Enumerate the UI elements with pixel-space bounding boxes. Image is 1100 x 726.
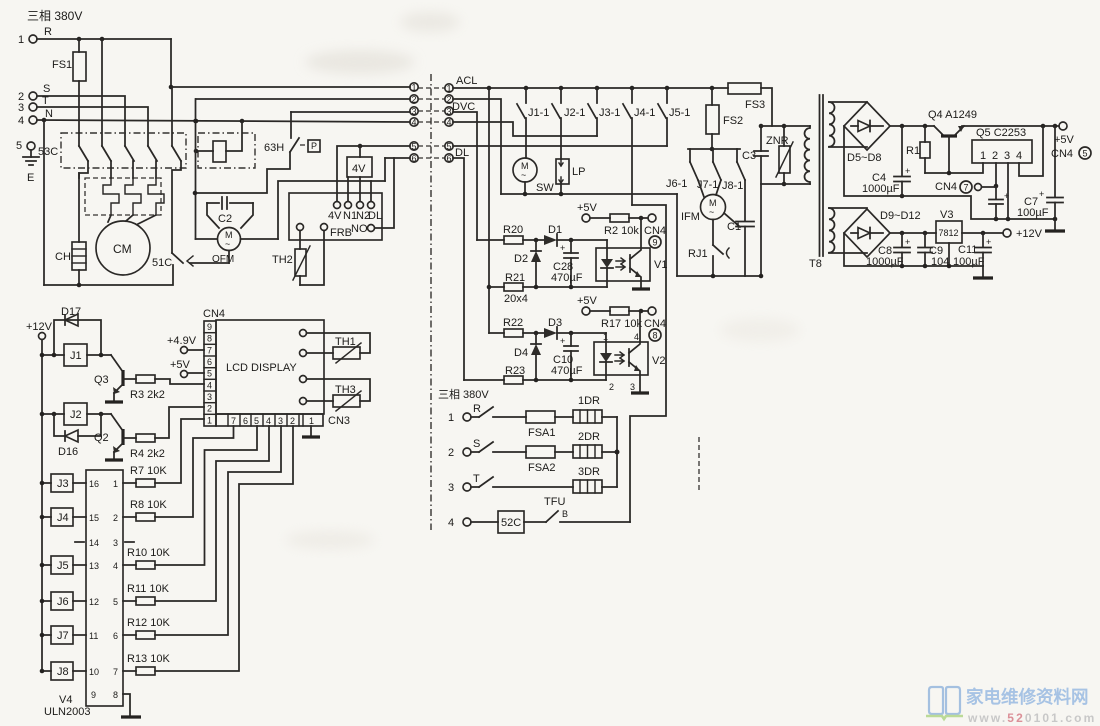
capacitor C11 100uF bbox=[953, 233, 991, 268]
node column right: pin 3 DVC bbox=[445, 101, 475, 117]
motor SW (swing) bbox=[513, 158, 554, 194]
capacitor C9 104 bbox=[918, 233, 949, 268]
svg-text:R13 10K: R13 10K bbox=[127, 653, 170, 665]
svg-text:Q5 C2253: Q5 C2253 bbox=[976, 127, 1026, 139]
connector CN3 (strip) bbox=[216, 414, 350, 427]
svg-text:470µF: 470µF bbox=[551, 272, 583, 284]
ground (Q2) bbox=[105, 458, 123, 461]
diode D2 bbox=[514, 240, 541, 287]
svg-text:6: 6 bbox=[207, 357, 212, 367]
svg-text:B: B bbox=[562, 509, 568, 519]
svg-text:13: 13 bbox=[89, 561, 99, 571]
svg-text:+: + bbox=[560, 336, 565, 346]
node column left: pin 1 bbox=[410, 83, 445, 93]
svg-text:2: 2 bbox=[113, 513, 118, 523]
svg-text:6: 6 bbox=[412, 154, 417, 164]
resistor R8 10K bbox=[123, 426, 234, 521]
svg-text:RJ1: RJ1 bbox=[688, 248, 708, 260]
wire ZNR bottom node bbox=[761, 183, 810, 185]
wire pin4 to J3-1 bbox=[453, 122, 597, 136]
svg-text:OFM: OFM bbox=[212, 254, 234, 265]
svg-text:3: 3 bbox=[207, 392, 212, 402]
fuse FS3 bbox=[728, 83, 772, 126]
capacitor C2 with run-cap funnel bbox=[207, 197, 253, 228]
switch 63H with P box bbox=[193, 138, 320, 195]
relay J6 bbox=[40, 592, 86, 610]
svg-text:家电维修资料网: 家电维修资料网 bbox=[966, 687, 1089, 707]
switch TFU bbox=[544, 496, 630, 522]
bridge D9~D12 bbox=[844, 209, 921, 257]
wire T line bbox=[37, 107, 148, 146]
terminal 3 T (detect) bbox=[448, 473, 573, 494]
relay J3 bbox=[40, 474, 86, 492]
heater element 2 bbox=[125, 178, 141, 215]
relay J2 bbox=[40, 403, 111, 425]
svg-text:R8 10K: R8 10K bbox=[130, 499, 167, 511]
wire Q5 pin3 bbox=[1007, 163, 1009, 219]
wire top bracket of fan contacts bbox=[688, 147, 740, 162]
contactor 53C pole 1 bbox=[79, 133, 88, 178]
terminal 1 R (detect) bbox=[448, 403, 526, 424]
capacitor C4 1000uF bbox=[862, 126, 910, 196]
terminal CN4 (7) bbox=[935, 181, 996, 193]
resistor R21 bbox=[489, 272, 607, 291]
wires fan contacts to motor bbox=[698, 180, 745, 227]
svg-text:J5: J5 bbox=[57, 560, 69, 572]
diode D17 bbox=[54, 306, 101, 355]
svg-text:7: 7 bbox=[113, 667, 118, 677]
svg-text:4: 4 bbox=[447, 118, 452, 128]
wire pin2 line from N riser bbox=[196, 98, 410, 100]
svg-text:J4: J4 bbox=[57, 512, 69, 524]
contactor 53C pole 2 bbox=[102, 146, 111, 178]
terminal +5V (display) bbox=[170, 359, 204, 378]
wire DL pin path bbox=[371, 158, 385, 201]
relay coil box (dash-dot) bbox=[198, 133, 255, 168]
motor IFM (indoor fan) bbox=[681, 195, 726, 224]
svg-text:V1: V1 bbox=[654, 259, 667, 271]
svg-text:ULN2003: ULN2003 bbox=[44, 706, 90, 718]
node column right: pin 5 bbox=[445, 142, 453, 152]
capacitor C8 1000uF bbox=[866, 233, 910, 268]
svg-text:4: 4 bbox=[18, 115, 24, 127]
switch J8-1 bbox=[722, 162, 745, 192]
svg-text:2: 2 bbox=[412, 95, 417, 105]
svg-text:3: 3 bbox=[18, 102, 24, 114]
svg-text:8: 8 bbox=[207, 334, 212, 344]
resistor R12 10K bbox=[123, 426, 281, 639]
switch 51C (compressor protector) bbox=[152, 253, 229, 269]
svg-text:R17 10k: R17 10k bbox=[601, 318, 642, 330]
wire ACL bus bbox=[453, 86, 728, 91]
svg-text:12: 12 bbox=[89, 597, 99, 607]
fuse FSA2 bbox=[526, 446, 573, 474]
svg-text:NO: NO bbox=[351, 223, 368, 235]
wire node to pin(5) bbox=[358, 144, 410, 157]
switch J5-1 bbox=[658, 88, 690, 146]
svg-text:3: 3 bbox=[113, 538, 118, 548]
svg-text:R: R bbox=[473, 403, 481, 415]
relay coil bbox=[194, 121, 242, 162]
wire N down left bbox=[43, 120, 45, 285]
wire +5V raw rail bbox=[890, 124, 1059, 129]
wire pin3 line bbox=[291, 112, 410, 138]
svg-text:V3: V3 bbox=[940, 209, 953, 221]
svg-text:1: 1 bbox=[412, 83, 417, 93]
terminal +4.9V bbox=[167, 335, 204, 354]
svg-text:4: 4 bbox=[266, 416, 271, 426]
+5V terminal (lower opto) bbox=[577, 295, 610, 315]
diode D1 bbox=[534, 224, 607, 246]
svg-text:J1: J1 bbox=[70, 350, 82, 362]
wire +12V rail bbox=[890, 231, 936, 236]
wire bottom rail bbox=[44, 265, 173, 287]
svg-text:4V: 4V bbox=[328, 210, 342, 222]
svg-text:三相 380V: 三相 380V bbox=[438, 388, 489, 401]
svg-text:D4: D4 bbox=[514, 347, 528, 359]
svg-text:D9~D12: D9~D12 bbox=[880, 210, 921, 222]
svg-text:4: 4 bbox=[412, 118, 417, 128]
svg-text:100µF: 100µF bbox=[1017, 207, 1049, 219]
svg-text:T: T bbox=[42, 95, 49, 107]
svg-text:CN4: CN4 bbox=[203, 308, 225, 320]
resistor R10 10K bbox=[123, 426, 257, 569]
capacitor C28 470uF bbox=[551, 240, 583, 287]
ground (CN3 pin1) bbox=[302, 426, 320, 437]
svg-text:三相 380V: 三相 380V bbox=[27, 9, 82, 23]
contactor 53C pole 5 bbox=[172, 87, 181, 253]
svg-text:9: 9 bbox=[653, 238, 658, 248]
svg-text:7: 7 bbox=[207, 345, 212, 355]
resistor R4 2k2 bbox=[130, 407, 204, 460]
watermark book icon bbox=[926, 687, 963, 719]
fuse FS2 bbox=[706, 88, 743, 149]
transistor Q4 A1249 bbox=[928, 109, 977, 173]
wire pole2 feed bbox=[101, 39, 103, 146]
svg-text:9: 9 bbox=[207, 322, 212, 332]
wire N line to pin4 bbox=[37, 118, 410, 124]
box 52C bbox=[498, 511, 546, 533]
thermistor TH1 bbox=[307, 333, 371, 363]
svg-text:J1-1: J1-1 bbox=[528, 107, 549, 119]
svg-text:J5-1: J5-1 bbox=[669, 107, 690, 119]
svg-text:CN3: CN3 bbox=[328, 415, 350, 427]
LCD terminal circles bbox=[300, 330, 307, 405]
svg-text:J3: J3 bbox=[57, 478, 69, 490]
opto-coupler V1 bbox=[596, 218, 667, 288]
terminal +5V CN4 (5) bbox=[1051, 122, 1091, 160]
svg-text:Q3: Q3 bbox=[94, 374, 109, 386]
wires heaters to CM bbox=[108, 215, 156, 224]
svg-text:1: 1 bbox=[18, 34, 24, 46]
svg-text:J8: J8 bbox=[57, 666, 69, 678]
svg-text:ACL: ACL bbox=[456, 75, 477, 87]
svg-text:N: N bbox=[45, 108, 53, 120]
capacitor C3 bbox=[742, 124, 768, 279]
svg-text:FRB: FRB bbox=[330, 227, 352, 239]
svg-text:1: 1 bbox=[447, 84, 452, 94]
svg-text:5: 5 bbox=[254, 416, 259, 426]
bridge D5~D8 bbox=[844, 102, 890, 164]
transistor Q2 bbox=[94, 414, 136, 459]
svg-text:R12 10K: R12 10K bbox=[127, 617, 170, 629]
svg-text:J6-1: J6-1 bbox=[666, 178, 687, 190]
svg-text:63H: 63H bbox=[264, 142, 284, 154]
box 4V (4-way valve coil) bbox=[347, 157, 372, 177]
resistor R17 10k bbox=[601, 307, 648, 330]
svg-text:R: R bbox=[44, 26, 52, 38]
svg-text:+: + bbox=[1039, 189, 1044, 199]
svg-text:5: 5 bbox=[113, 597, 118, 607]
wire secondary upper to bridge bbox=[829, 102, 867, 147]
wire NO pin path bbox=[375, 158, 394, 228]
switch RJ1 (fan protector) bbox=[688, 220, 729, 277]
node column right: pin 4 bbox=[445, 118, 453, 128]
diode D3 bbox=[534, 317, 606, 339]
relay J1 bbox=[40, 344, 111, 366]
regulator Q5 C2253 bbox=[972, 127, 1032, 163]
svg-text:2DR: 2DR bbox=[578, 431, 600, 443]
transistor Q3 bbox=[94, 355, 136, 401]
svg-text:+12V: +12V bbox=[26, 321, 53, 333]
wire node to 4V pin bbox=[337, 146, 360, 201]
node column left: pin 2 bbox=[410, 95, 445, 105]
svg-text:1DR: 1DR bbox=[578, 395, 600, 407]
svg-text:CH: CH bbox=[55, 251, 71, 263]
svg-text:R1: R1 bbox=[906, 145, 920, 157]
thermistor TH3 bbox=[307, 379, 371, 411]
resistor R1 bbox=[906, 126, 930, 173]
svg-text:1: 1 bbox=[207, 415, 212, 425]
resistor R23 bbox=[464, 365, 606, 384]
svg-text:J2-1: J2-1 bbox=[564, 107, 585, 119]
svg-text:6: 6 bbox=[113, 631, 118, 641]
svg-text:+5V: +5V bbox=[577, 295, 598, 307]
relay J8 bbox=[40, 662, 86, 680]
resistor R2 10k bbox=[604, 214, 648, 237]
svg-text:FS1: FS1 bbox=[52, 59, 72, 71]
svg-text:R4 2k2: R4 2k2 bbox=[130, 448, 165, 460]
svg-text:7: 7 bbox=[231, 416, 236, 426]
wire pin2 to SW/LP return bbox=[453, 99, 501, 194]
wire +12V bus bbox=[41, 340, 43, 672]
svg-text:FS3: FS3 bbox=[745, 99, 765, 111]
wire V3 out to +12V bbox=[962, 228, 1043, 240]
svg-text:6: 6 bbox=[447, 154, 452, 164]
svg-text:2: 2 bbox=[290, 416, 295, 426]
svg-text:R3 2k2: R3 2k2 bbox=[130, 389, 165, 401]
capacitor C1 bbox=[727, 221, 754, 276]
varistor ZNR bbox=[766, 124, 793, 187]
svg-text:FSA2: FSA2 bbox=[528, 462, 556, 474]
svg-text:7812: 7812 bbox=[939, 228, 959, 238]
transformer T8 core bbox=[809, 95, 823, 270]
svg-text:LCD DISPLAY: LCD DISPLAY bbox=[226, 362, 297, 374]
svg-text:3: 3 bbox=[1004, 150, 1010, 162]
node column left: pin 4 bbox=[410, 118, 445, 128]
svg-text:CN4: CN4 bbox=[935, 181, 957, 193]
wire ACL feed riser to R21/R22 bbox=[487, 88, 492, 333]
svg-text:S: S bbox=[43, 83, 50, 95]
resistor R11 10K bbox=[123, 426, 269, 605]
node column left: pin 6 bbox=[410, 154, 445, 164]
svg-text:3: 3 bbox=[412, 107, 417, 117]
svg-text:T: T bbox=[473, 473, 480, 485]
terminal CN4 (9) bbox=[644, 214, 666, 248]
svg-text:16: 16 bbox=[89, 479, 99, 489]
svg-text:R10 10K: R10 10K bbox=[127, 547, 170, 559]
terminal 5 (E) with ground bbox=[16, 140, 39, 184]
wire pin6 DL riser bbox=[453, 158, 464, 380]
node column left: pin 5 bbox=[410, 142, 445, 152]
svg-text:LP: LP bbox=[572, 166, 585, 178]
contactor 53C dash-dot box bbox=[61, 133, 186, 168]
wire pin(6) line bbox=[385, 157, 410, 159]
svg-text:R22: R22 bbox=[503, 317, 523, 329]
wire Q5 pin2 bbox=[994, 163, 999, 199]
wire R to node ACL bbox=[169, 39, 410, 89]
svg-text:N1: N1 bbox=[343, 210, 357, 222]
svg-text:4: 4 bbox=[113, 561, 118, 571]
svg-text:J8-1: J8-1 bbox=[722, 180, 743, 192]
svg-text:D3: D3 bbox=[548, 317, 562, 329]
wire DR common vertical bbox=[615, 417, 620, 487]
svg-text:4: 4 bbox=[448, 517, 454, 529]
regulator V3 7812 bbox=[936, 209, 962, 266]
svg-text:+5V: +5V bbox=[577, 202, 598, 214]
svg-text:R11 10K: R11 10K bbox=[127, 583, 170, 595]
contactor 53C pole 4 bbox=[148, 146, 157, 178]
svg-text:53C: 53C bbox=[38, 146, 58, 158]
svg-text:4: 4 bbox=[207, 380, 212, 390]
switch J3-1 bbox=[588, 88, 620, 136]
ground (ULN pin8) bbox=[121, 694, 141, 717]
svg-text:2: 2 bbox=[207, 404, 212, 414]
svg-text:+12V: +12V bbox=[1016, 228, 1043, 240]
svg-text:CN4: CN4 bbox=[1051, 148, 1073, 160]
svg-text:J2: J2 bbox=[70, 409, 82, 421]
svg-text:R2 10k: R2 10k bbox=[604, 225, 639, 237]
relay J5 bbox=[40, 556, 86, 574]
FRB pin 4V bbox=[328, 202, 342, 223]
svg-text:C2: C2 bbox=[218, 213, 232, 225]
svg-text:P: P bbox=[311, 141, 317, 151]
svg-text:3: 3 bbox=[448, 482, 454, 494]
svg-text:2: 2 bbox=[992, 150, 998, 162]
svg-text:R20: R20 bbox=[503, 224, 523, 236]
fuse FSA1 bbox=[526, 411, 573, 439]
svg-text:1: 1 bbox=[980, 150, 986, 162]
box FRB (defrost control) bbox=[289, 193, 382, 240]
svg-text:3: 3 bbox=[447, 107, 452, 117]
svg-text:3DR: 3DR bbox=[578, 466, 600, 478]
wire Q5 pin4 to +5V bbox=[1019, 126, 1043, 176]
lamp LP bbox=[556, 159, 585, 194]
IC V4 ULN2003 bbox=[44, 470, 123, 718]
relay J7 bbox=[40, 626, 86, 644]
coil CH bbox=[55, 173, 86, 285]
svg-text:+: + bbox=[905, 166, 910, 176]
svg-text:20x4: 20x4 bbox=[504, 293, 528, 305]
svg-text:1: 1 bbox=[113, 479, 118, 489]
wire pin5 line to J5-1 bbox=[453, 145, 667, 147]
terminal 3 (T) bbox=[18, 95, 49, 114]
stray dash-dot mark bbox=[698, 437, 700, 490]
capacitor C7 100uF bbox=[1017, 126, 1063, 219]
node column right: pin 6 DL bbox=[445, 147, 469, 164]
box LCD DISPLAY bbox=[216, 320, 324, 414]
svg-text:15: 15 bbox=[89, 513, 99, 523]
svg-text:V2: V2 bbox=[652, 355, 665, 367]
transformer T8 primary coil bbox=[805, 126, 811, 184]
transformer T8 secondary upper bbox=[829, 102, 835, 147]
svg-text:CM: CM bbox=[113, 242, 132, 256]
svg-text:Q4 A1249: Q4 A1249 bbox=[928, 109, 977, 121]
capacitor C10 470uF bbox=[551, 333, 583, 380]
relay J4 bbox=[40, 508, 86, 526]
svg-text:5: 5 bbox=[412, 142, 417, 152]
svg-text:Q2: Q2 bbox=[94, 432, 109, 444]
svg-text:10: 10 bbox=[89, 667, 99, 677]
svg-text:5: 5 bbox=[207, 369, 212, 379]
svg-text:E: E bbox=[27, 172, 34, 184]
capacitor C5 (pin2) bbox=[989, 191, 1009, 219]
svg-text:www.520101.com: www.520101.com bbox=[967, 711, 1096, 725]
ground (C7) bbox=[1045, 219, 1065, 231]
svg-text:9: 9 bbox=[91, 690, 96, 700]
svg-text:5: 5 bbox=[1083, 149, 1088, 159]
heater element 1 bbox=[103, 178, 119, 215]
opto-coupler V2 bbox=[594, 311, 665, 392]
overload heater dashed box bbox=[85, 178, 161, 215]
svg-text:+: + bbox=[560, 243, 565, 253]
svg-text:D1: D1 bbox=[548, 224, 562, 236]
heater 3DR bbox=[573, 466, 617, 493]
transformer T8 secondary lower bbox=[829, 208, 835, 253]
heater element 3 bbox=[148, 178, 164, 215]
ground (V1 emitter) bbox=[632, 287, 650, 290]
thermistor TH2 bbox=[272, 224, 328, 286]
switch J1-1 bbox=[517, 88, 549, 158]
svg-text:D2: D2 bbox=[514, 253, 528, 265]
svg-text:FSA1: FSA1 bbox=[528, 427, 556, 439]
svg-text:DL: DL bbox=[368, 210, 382, 222]
svg-text:J3-1: J3-1 bbox=[599, 107, 620, 119]
wire ZNR top node bbox=[761, 125, 810, 127]
wire R1/Q4/pin1 node bbox=[925, 163, 983, 175]
node column right: pin 2 bbox=[445, 95, 453, 105]
terminal 2 (S) bbox=[18, 83, 50, 103]
motor OFM (outdoor fan) bbox=[212, 181, 385, 265]
svg-text:1000µF: 1000µF bbox=[862, 183, 900, 195]
FRB pin DL bbox=[368, 202, 383, 223]
svg-text:3: 3 bbox=[278, 416, 283, 426]
svg-text:~: ~ bbox=[709, 207, 714, 217]
fuse FS1 bbox=[52, 39, 86, 133]
wire 12V ground rail bbox=[844, 233, 983, 268]
ground (12V rail) bbox=[973, 266, 993, 278]
wire S line to pin2 bbox=[37, 96, 125, 146]
svg-text:5: 5 bbox=[16, 140, 22, 152]
svg-text:2: 2 bbox=[609, 382, 614, 392]
wire 4V box to pin circles bbox=[348, 177, 360, 201]
svg-text:V4: V4 bbox=[59, 694, 72, 706]
resistor R3 2k2 bbox=[130, 375, 204, 401]
terminal 4 (N) bbox=[18, 108, 53, 127]
svg-text:IFM: IFM bbox=[681, 211, 700, 223]
switch J6-1 bbox=[666, 162, 698, 190]
svg-text:+4.9V: +4.9V bbox=[167, 335, 197, 347]
